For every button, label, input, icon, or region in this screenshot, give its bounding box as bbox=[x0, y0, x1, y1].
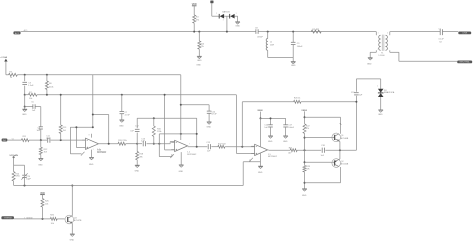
wire R16 top bbox=[153, 118, 155, 126]
wire U2 output bbox=[188, 146, 208, 148]
svg-text:47k: 47k bbox=[306, 169, 309, 171]
wire C3 top bbox=[24, 75, 26, 81]
svg-text:GND: GND bbox=[283, 141, 288, 143]
capacitor C1 X2 bbox=[439, 29, 445, 44]
junction U2 out bbox=[196, 146, 198, 148]
svg-text:47k: 47k bbox=[196, 20, 199, 22]
ground under U1 bbox=[89, 157, 94, 165]
junction bias bottom bbox=[304, 182, 306, 184]
svg-text:GND: GND bbox=[302, 195, 307, 197]
diode D2 BAT54S bbox=[230, 13, 237, 18]
wire R16 to J1 row bbox=[153, 137, 155, 144]
wire output riser bbox=[355, 79, 357, 150]
junction U3 minus/feedback bbox=[241, 146, 243, 148]
svg-text:1: 1 bbox=[236, 13, 237, 15]
wire T1 pin4 to line cap bbox=[387, 32, 440, 36]
net flag LINE bbox=[458, 32, 471, 35]
resistor R13 bbox=[59, 125, 67, 133]
capacitor C5 bbox=[31, 102, 36, 112]
svg-text:4.7uF: 4.7uF bbox=[125, 114, 131, 116]
resistor R5 in rail A bbox=[9, 71, 18, 79]
wire vref cap row bbox=[181, 105, 209, 111]
wire supply arrow down bbox=[6, 62, 9, 75]
svg-text:GND: GND bbox=[378, 114, 383, 116]
wire R18 to ground bbox=[136, 160, 138, 165]
wire rail B to C7 bbox=[121, 95, 123, 112]
junction rail B left end bbox=[24, 94, 26, 96]
svg-text:R2 4R7: R2 4R7 bbox=[312, 29, 320, 31]
resistor R22 bias bbox=[303, 124, 310, 134]
wire diode centre tap to bus bbox=[223, 16, 227, 31]
wire U2 top row bbox=[159, 133, 196, 135]
svg-text:BAT54S: BAT54S bbox=[222, 10, 230, 13]
resistor R10 bbox=[198, 41, 205, 49]
wire bus to T1 primary bbox=[376, 32, 378, 36]
net flag NEUTRAL bbox=[457, 61, 472, 64]
svg-text:GND: GND bbox=[89, 164, 94, 166]
svg-text:SMAJ13CA: SMAJ13CA bbox=[384, 91, 395, 94]
wire bottom bus bbox=[14, 185, 243, 187]
junction rail A/C3 bbox=[24, 74, 26, 76]
junction under UPGAIN bbox=[13, 156, 15, 158]
wire U1 plus branch bbox=[76, 127, 82, 147]
wire R10 to ground bbox=[198, 49, 200, 56]
svg-text:LINE: LINE bbox=[462, 33, 467, 35]
resistor R15 bbox=[118, 140, 127, 145]
svg-text:10k: 10k bbox=[29, 98, 32, 100]
wire U3 output bbox=[268, 149, 290, 151]
wire C16 to ground bbox=[270, 127, 272, 136]
svg-text:MCP6002: MCP6002 bbox=[97, 151, 107, 153]
resistor R4 bbox=[193, 15, 200, 23]
ground under tvs bbox=[378, 110, 383, 116]
wire J1 down to R18 bbox=[136, 144, 138, 152]
wire bus to C9 bbox=[292, 32, 294, 43]
trimmer C20 bbox=[21, 173, 31, 180]
net flag VREF bias bbox=[301, 110, 307, 112]
wire VREF stub bbox=[260, 112, 262, 119]
junction plus branch bbox=[75, 126, 77, 128]
wire R17 to U3 bbox=[225, 146, 255, 148]
junction Q1 base row bbox=[304, 137, 306, 139]
transistor Q4 BC547 bbox=[65, 215, 82, 224]
wire Q1 emitter drop bbox=[339, 141, 340, 150]
wire C5 to input node bbox=[40, 107, 42, 141]
label U3 bbox=[268, 154, 278, 158]
svg-text:1: 1 bbox=[93, 149, 94, 151]
wire C16 drop bbox=[270, 118, 272, 124]
wire C3 to rail B bbox=[24, 86, 26, 95]
svg-text:3: 3 bbox=[223, 20, 224, 22]
resistor R21 output bbox=[288, 148, 297, 155]
svg-text:BC556B: BC556B bbox=[341, 163, 349, 165]
wire C20 bottom bbox=[24, 178, 26, 186]
ground under U2 bbox=[179, 165, 184, 173]
svg-text:GND: GND bbox=[268, 141, 273, 143]
wire thermal row bbox=[14, 218, 65, 220]
svg-text:10pF: 10pF bbox=[26, 178, 31, 180]
U2 slash pin bbox=[170, 144, 190, 158]
svg-text:R20 1k: R20 1k bbox=[294, 97, 300, 99]
wire T1 pin3 to NEUTRAL bbox=[387, 49, 457, 62]
svg-text:GND: GND bbox=[367, 63, 372, 65]
junction J1 row/box bbox=[158, 143, 160, 145]
ground under C16 bbox=[268, 136, 273, 143]
ground at T1 pin2 bbox=[367, 58, 373, 66]
ground under C17 bbox=[283, 136, 288, 143]
wire C5 node to ground bbox=[24, 107, 26, 110]
power arrow VMID left bbox=[0, 56, 7, 61]
tvs diode D3 SMAJ13CA bbox=[377, 85, 395, 97]
svg-text:39k: 39k bbox=[139, 156, 142, 158]
wire C14 to ground bbox=[208, 113, 210, 122]
wire Q2 collector row bbox=[305, 167, 341, 183]
capacitor C15 series bbox=[206, 142, 211, 153]
wire C9 down bbox=[292, 45, 294, 62]
svg-text:GND: GND bbox=[258, 172, 263, 174]
junction rail B/U2 plus bbox=[164, 94, 166, 96]
svg-text:2: 2 bbox=[377, 85, 378, 87]
wire rail B to U2 plus bbox=[165, 95, 175, 150]
svg-text:47k: 47k bbox=[306, 128, 309, 130]
wire C5 row bbox=[25, 106, 41, 108]
junction bus/R10 bbox=[198, 31, 200, 33]
wire Q4 collector to bus bbox=[71, 186, 74, 217]
wire supply to D1 bbox=[212, 3, 219, 16]
op-amp U2 MCP6002 bbox=[171, 140, 187, 151]
resistor R25 pullup bbox=[41, 199, 50, 207]
junction Q2 base row bbox=[304, 161, 306, 163]
junction feedback tee bbox=[92, 114, 94, 116]
U1 slash pin bbox=[81, 135, 94, 156]
capacitor C4 bbox=[37, 127, 43, 132]
wire L1 down bbox=[268, 50, 294, 57]
resistor R2 in top bus bbox=[311, 29, 321, 33]
wire U1 vplus stub bbox=[91, 134, 93, 138]
junction bus/diode tap bbox=[226, 31, 228, 33]
wire U1 feedback top bbox=[93, 75, 109, 144]
resistor R12 bbox=[39, 147, 48, 154]
junction J1 row/R16 bbox=[153, 143, 155, 145]
resistor R11 input bbox=[21, 136, 29, 142]
junction bus/C9 bbox=[292, 31, 294, 33]
resistor R7 in rail B bbox=[28, 92, 37, 100]
junction rail B/R13 bbox=[60, 94, 62, 96]
ground under Q4 bbox=[70, 234, 75, 242]
svg-text:1: 1 bbox=[378, 32, 379, 34]
svg-text:GND: GND bbox=[196, 64, 201, 66]
resistor R23 bias bbox=[303, 165, 311, 172]
svg-text:GND: GND bbox=[291, 65, 296, 67]
junction rail A/R6 bbox=[46, 74, 48, 76]
svg-text:3: 3 bbox=[387, 49, 388, 51]
wire R12 top bbox=[40, 140, 42, 147]
ground under C5 node bbox=[22, 109, 27, 116]
wire R14 bottom bbox=[13, 181, 15, 185]
wire U1 output bbox=[99, 143, 118, 145]
svg-text:MCP6002: MCP6002 bbox=[268, 156, 278, 158]
wire R4 to bus bbox=[193, 23, 195, 31]
wire U1 vref row bbox=[70, 127, 92, 154]
svg-text:MCP6002: MCP6002 bbox=[187, 154, 197, 156]
capacitor C11 series bbox=[46, 136, 50, 143]
wire clamp row bbox=[356, 79, 380, 89]
wire feedback row y101.8 bbox=[242, 101, 356, 103]
junction C16 bbox=[270, 117, 272, 119]
junction bias top bbox=[304, 116, 306, 118]
wire U2 feedback drop bbox=[196, 118, 198, 147]
svg-text:100nF: 100nF bbox=[297, 46, 303, 48]
junction feedback/R16 bbox=[153, 117, 155, 119]
power VDD top of R4 bbox=[192, 4, 197, 6]
wire top bus bbox=[21, 31, 377, 33]
svg-text:4: 4 bbox=[387, 32, 388, 34]
capacitor C9 bbox=[291, 42, 303, 48]
wire bias column bbox=[304, 111, 306, 188]
svg-text:10k: 10k bbox=[45, 203, 48, 205]
svg-text:7: 7 bbox=[189, 144, 190, 146]
svg-text:1.5nF: 1.5nF bbox=[28, 85, 34, 87]
wire R21 to bias column bbox=[297, 149, 321, 151]
wire bus to L1 bbox=[267, 32, 269, 39]
wire VDD to R4 bbox=[193, 6, 195, 15]
wire tvs to ground bbox=[380, 97, 382, 110]
wire input row bbox=[7, 139, 85, 141]
wire vref riser bbox=[180, 75, 182, 134]
svg-text:GND: GND bbox=[38, 165, 43, 167]
capacitor C18 series bbox=[321, 145, 326, 157]
resistor R6 bbox=[45, 81, 53, 89]
junction input/R12 bbox=[40, 139, 42, 141]
wire C15 to R17 bbox=[211, 146, 217, 148]
svg-text:+2.5VA: +2.5VA bbox=[0, 56, 7, 59]
junction rail B/C7 bbox=[121, 94, 123, 96]
ground under R10 bbox=[196, 56, 202, 66]
svg-text:GND: GND bbox=[22, 114, 27, 116]
svg-text:THERM: THERM bbox=[4, 218, 12, 220]
junction input/R13 divider bbox=[60, 139, 62, 141]
wire Q4 emitter to ground bbox=[71, 223, 74, 234]
net flag AC1 on top bus bbox=[13, 29, 28, 35]
ground under R12 bbox=[38, 158, 43, 166]
ground under R18 bbox=[135, 165, 140, 172]
svg-text:GND: GND bbox=[197, 60, 202, 62]
svg-text:1mH: 1mH bbox=[270, 44, 275, 46]
capacitor C13 series bbox=[141, 138, 146, 146]
svg-text:GND: GND bbox=[70, 240, 75, 242]
ground under C9 bbox=[291, 62, 296, 68]
resistor R14 gain bbox=[12, 172, 20, 182]
svg-text:1:1000: 1:1000 bbox=[378, 55, 385, 57]
svg-text:470k: 470k bbox=[15, 176, 19, 178]
junction vref row bbox=[92, 126, 94, 128]
wire rail A bbox=[17, 74, 181, 76]
svg-text:510k: 510k bbox=[49, 86, 53, 88]
power +5V box above D1 bbox=[210, 1, 213, 4]
capacitor C17 bbox=[283, 125, 294, 129]
wire R25 to thermal row bbox=[42, 207, 44, 219]
capacitor C14 vref bbox=[207, 111, 218, 116]
junction VREF row bbox=[260, 117, 262, 119]
wire R6 to rail B bbox=[46, 89, 48, 94]
wire Q1 collector row bbox=[305, 117, 342, 134]
net flag THERMAL bbox=[1, 216, 33, 219]
svg-text:8: 8 bbox=[89, 135, 90, 137]
svg-text:220k: 220k bbox=[157, 131, 161, 133]
wire feedback row y118 bbox=[137, 117, 197, 119]
op-amp U1 MCP6002 bbox=[82, 138, 107, 154]
junction bottom bus/Q4 bbox=[71, 185, 73, 187]
junction bus/L1 bbox=[267, 31, 269, 33]
ground under C14 bbox=[206, 122, 211, 129]
wire C17 to ground bbox=[285, 127, 287, 136]
junction thermal/R25 bbox=[42, 218, 44, 220]
svg-text:47k: 47k bbox=[201, 46, 204, 48]
svg-text:BC547B: BC547B bbox=[74, 220, 82, 222]
wire D2 anode right bbox=[235, 16, 238, 22]
ground under U3 bbox=[258, 166, 263, 174]
svg-text:1k: 1k bbox=[10, 77, 12, 79]
ground under D2 bbox=[235, 22, 240, 28]
junction emitters bbox=[339, 149, 341, 151]
net flag UPGAIN bbox=[10, 154, 19, 157]
junction bias column signal bbox=[304, 149, 306, 151]
capacitor C8 series on bus bbox=[255, 27, 264, 38]
wire Q2 base row bbox=[305, 161, 335, 163]
wire R6 top bbox=[46, 75, 48, 81]
ground under bias column bbox=[302, 189, 307, 197]
U3 slash pin bbox=[249, 158, 253, 162]
wire U2 box bbox=[159, 134, 172, 157]
resistor R16 bbox=[152, 126, 161, 137]
svg-text:2: 2 bbox=[378, 49, 379, 51]
junction J1 bbox=[136, 143, 138, 145]
wire R13 to input row bbox=[60, 133, 62, 140]
capacitor C16 bbox=[264, 125, 272, 129]
resistor R18 bbox=[136, 152, 144, 160]
wire Q2 emitter rise bbox=[339, 150, 340, 159]
wire J1 up to feedback row bbox=[136, 118, 138, 144]
svg-text:NEUTRAL: NEUTRAL bbox=[460, 61, 471, 64]
wire C7 to ground bbox=[121, 114, 123, 120]
wire C18 to emitters bbox=[325, 149, 356, 151]
resistor R20 feedback bbox=[294, 97, 301, 103]
svg-text:100nF: 100nF bbox=[288, 127, 294, 129]
resistor R17 bbox=[218, 143, 227, 148]
wire rail B bbox=[25, 94, 237, 96]
wire U3 vminus path bbox=[243, 153, 260, 185]
net flag IN1 bbox=[2, 139, 14, 142]
wire VREF cap row bbox=[261, 117, 286, 119]
wire VDD to R25 bbox=[42, 195, 44, 199]
label U1 bbox=[97, 149, 107, 153]
wire U2 vminus to ground bbox=[180, 152, 182, 165]
svg-text:470nF: 470nF bbox=[257, 37, 263, 39]
op-amp U3 MCP6002 bbox=[251, 144, 267, 155]
label U2 bbox=[187, 152, 197, 156]
wire C17 drop bbox=[285, 118, 287, 124]
transistor Q1 BC546 bbox=[332, 133, 349, 142]
svg-text:R15 270k: R15 270k bbox=[118, 140, 127, 142]
wire C1 to LINE bbox=[443, 31, 459, 33]
junction C5 node bbox=[24, 106, 26, 108]
transistor Q2 BC556 bbox=[332, 159, 349, 168]
svg-text:R17 1k8: R17 1k8 bbox=[218, 143, 226, 145]
junction rail B/R6 bbox=[46, 94, 48, 96]
svg-text:4.7uF: 4.7uF bbox=[212, 114, 218, 116]
wire rail B drop to U3 plus bbox=[236, 95, 254, 154]
svg-text:0.1uF: 0.1uF bbox=[439, 38, 445, 40]
junction vref riser bbox=[180, 104, 182, 106]
wire D1 to D2 bbox=[224, 15, 230, 17]
wire U3 vplus riser bbox=[260, 118, 262, 146]
junction U1 out/feedback bbox=[108, 143, 110, 145]
junction U2 top row end bbox=[196, 133, 198, 135]
diode D1 BAT54S bbox=[216, 10, 230, 18]
svg-text:GND: GND bbox=[235, 25, 240, 27]
wire bus to R10 bbox=[198, 32, 200, 41]
wire rail B to C5 node bbox=[24, 95, 26, 107]
svg-text:10k: 10k bbox=[51, 223, 54, 225]
wire J1 to U2 bbox=[137, 142, 174, 144]
capacitor C3 bbox=[22, 82, 34, 87]
net flag VREF right bbox=[257, 110, 263, 112]
junction bus/R4 bbox=[193, 31, 195, 33]
wire R15 to J1 bbox=[126, 143, 138, 145]
wire U3 feedback riser bbox=[241, 102, 243, 147]
capacitor C12 feedback bbox=[130, 125, 139, 132]
ground under C7 bbox=[119, 120, 124, 128]
svg-text:2: 2 bbox=[216, 13, 217, 15]
transformer T1 bbox=[378, 35, 387, 58]
wire T1 pin2 to ground bbox=[370, 49, 378, 58]
wire rail B to R13 bbox=[60, 95, 62, 125]
svg-text:GND: GND bbox=[179, 171, 184, 173]
wire UPGAIN stub bbox=[14, 157, 25, 175]
inductor L1 bbox=[266, 39, 275, 51]
capacitor C7 bbox=[120, 112, 131, 117]
wire Q1 base row bbox=[305, 137, 335, 139]
wire U1 vminus to ground bbox=[91, 150, 93, 158]
junction output/feedback bbox=[355, 101, 357, 103]
wire U2 vplus stub bbox=[180, 134, 182, 140]
power VDD thermal bbox=[40, 193, 45, 195]
svg-text:GND: GND bbox=[119, 125, 124, 127]
resistor R26 base bbox=[50, 214, 57, 225]
junction bottom bus/trim bbox=[24, 185, 26, 187]
svg-text:GND: GND bbox=[135, 171, 140, 173]
svg-text:GND: GND bbox=[206, 127, 211, 129]
wire R12 to ground bbox=[40, 155, 42, 159]
svg-text:BC546B: BC546B bbox=[341, 138, 349, 140]
capacitor C19 coupling bbox=[351, 92, 363, 96]
junction U2 vplus bbox=[180, 133, 182, 135]
